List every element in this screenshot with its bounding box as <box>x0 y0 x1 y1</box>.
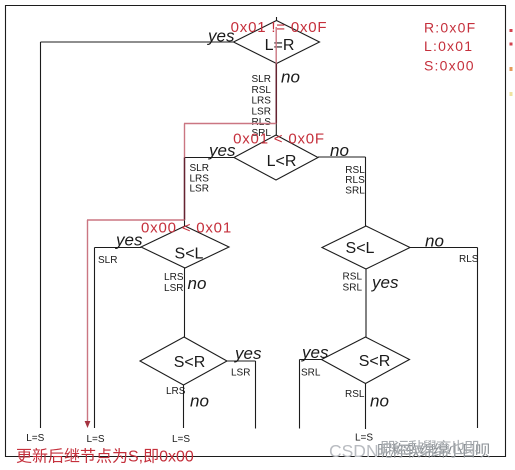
decision diamond D2 L&lt;R <box>234 135 318 180</box>
wire D1 yes branch horizontal <box>41 41 234 43</box>
wire D3R no branch vertical <box>477 248 479 429</box>
svg-text:SLR: SLR <box>98 255 117 266</box>
svg-text:L=S: L=S <box>86 434 104 445</box>
svg-text:LSR: LSR <box>164 283 183 294</box>
svg-text:yes: yes <box>234 344 262 363</box>
wire D2 yes branch horizontal <box>185 157 235 159</box>
svg-text:0x00 < 0x01: 0x00 < 0x01 <box>141 220 232 237</box>
svg-text:no: no <box>190 392 209 411</box>
decision diamond D4R S&lt;R <box>322 337 410 384</box>
svg-text:no: no <box>425 232 444 251</box>
wire D4R yes branch vertical <box>299 360 301 429</box>
red highlighted path horizontal to left at y123 <box>184 123 276 125</box>
decision diamond D1 L=R <box>234 21 320 64</box>
red arrowhead <box>85 421 91 428</box>
svg-text:L=S: L=S <box>172 434 190 445</box>
svg-text:LSR: LSR <box>252 106 271 117</box>
svg-text:S<L: S<L <box>175 246 204 263</box>
red highlighted path horizontal at y220 <box>87 219 185 221</box>
svg-text:no: no <box>188 274 207 293</box>
wire D2 no branch vertical <box>365 157 367 226</box>
svg-text:LSR: LSR <box>231 368 250 379</box>
decision diamond D3R S&lt;L <box>322 226 410 269</box>
svg-text:RLS: RLS <box>345 175 365 186</box>
svg-text:LRS: LRS <box>252 96 272 107</box>
decision diamond D3L S&lt;L <box>141 226 229 268</box>
red highlighted path vertical arrow line at x88 <box>87 220 89 421</box>
wire D4R no branch vertical <box>365 384 367 430</box>
wire D4R yes branch horizontal <box>300 359 322 361</box>
svg-text:S:0x00: S:0x00 <box>424 57 475 73</box>
svg-text:L=S: L=S <box>26 433 44 444</box>
svg-text:yes: yes <box>301 343 329 362</box>
svg-text:即运敮燢袬也即: 即运敮燢袬也即 <box>380 439 479 457</box>
svg-text:RLS: RLS <box>252 117 272 128</box>
wire D1 yes branch vertical <box>40 42 42 428</box>
svg-text:S<R: S<R <box>359 353 391 370</box>
decision diamond D4L S&lt;R <box>140 337 227 385</box>
svg-text:S<L: S<L <box>346 240 375 257</box>
svg-text:L=R: L=R <box>265 37 295 54</box>
svg-text:SRL: SRL <box>301 368 321 379</box>
svg-text:0x01 < 0x0F: 0x01 < 0x0F <box>233 131 325 148</box>
svg-text:LRS: LRS <box>166 386 186 397</box>
red highlighted path vertical D1-D2 (maroon overlap on black wire) <box>275 64 277 124</box>
wire D3R no branch horizontal <box>410 247 478 249</box>
right edge mark red 1 <box>510 29 513 32</box>
svg-text:R:0x0F: R:0x0F <box>424 19 476 35</box>
svg-text:RSL: RSL <box>252 85 272 96</box>
svg-text:SRL: SRL <box>345 186 365 197</box>
svg-text:S<R: S<R <box>174 354 206 371</box>
svg-text:no: no <box>281 68 300 87</box>
wire D3R yes branch vertical <box>365 269 367 337</box>
wire D4L yes branch vertical <box>255 361 257 429</box>
wire D1 no branch vertical <box>275 64 277 136</box>
svg-text:CSDN: CSDN <box>329 441 379 461</box>
red highlighted path vertical at x184 lower (maroon overlap on black wire) <box>184 158 186 221</box>
svg-text:LRS: LRS <box>164 272 184 283</box>
svg-text:no: no <box>330 141 349 160</box>
svg-text:更新后继节点为S,即0x00: 更新后继节点为S,即0x00 <box>16 448 194 466</box>
wire entry stub above L=R <box>276 17 278 21</box>
svg-text:no: no <box>370 392 389 411</box>
wire D2 yes branch vertical <box>184 158 186 227</box>
wire D4L yes branch horizontal <box>227 360 256 362</box>
right edge mark orange <box>510 67 513 71</box>
svg-text:SLR: SLR <box>252 74 271 85</box>
right edge mark red 2 <box>510 43 513 46</box>
wire D3L no branch vertical <box>184 268 186 337</box>
svg-text:LSR: LSR <box>190 183 209 194</box>
wire D2 no branch horizontal <box>318 156 366 158</box>
wire D4L no branch vertical <box>183 385 185 428</box>
svg-text:yes: yes <box>208 141 236 160</box>
wire D3L yes branch vertical <box>94 248 96 429</box>
svg-text:L:0x01: L:0x01 <box>424 38 473 54</box>
right edge mark yellow <box>510 92 513 96</box>
red highlighted path vertical through D1 (pink on white) <box>275 27 277 64</box>
svg-text:yes: yes <box>115 231 143 250</box>
svg-text:0x01 != 0x0F: 0x01 != 0x0F <box>231 19 328 36</box>
svg-text:L<R: L<R <box>267 153 297 170</box>
red highlighted path vertical at x184 upper (pink) <box>184 124 186 158</box>
svg-text:RLS: RLS <box>459 254 479 265</box>
svg-text:yes: yes <box>371 273 399 292</box>
wire D3L yes branch horizontal <box>95 247 142 249</box>
svg-text:RSL: RSL <box>345 389 365 400</box>
svg-text:SRL: SRL <box>343 283 363 294</box>
svg-text:RSL: RSL <box>343 272 363 283</box>
